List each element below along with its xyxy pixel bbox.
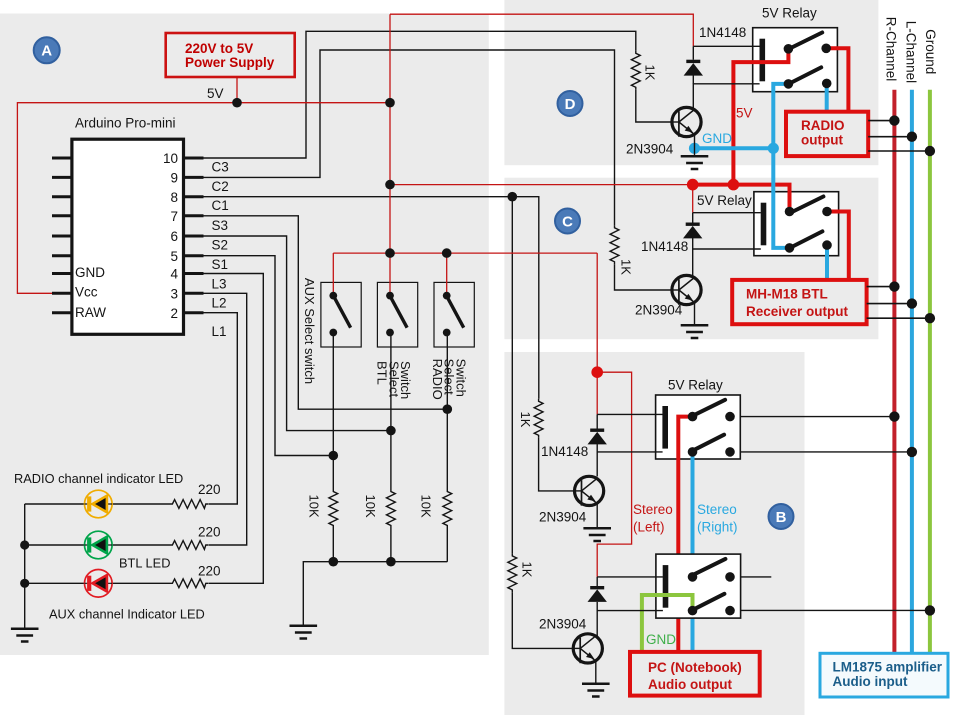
svg-text:C3: C3 [212, 160, 229, 175]
wire S3 pin7 to RADIO switch bottom [204, 216, 448, 409]
wire red top horizontal to relay D [390, 14, 693, 46]
transistor Q1 2N3904 (D) [672, 107, 701, 136]
resistor 1K relay C [610, 225, 619, 264]
wire RADIO output to R-Channel [868, 120, 894, 122]
Arduino pin number labels [163, 151, 179, 321]
relay K3 (B upper) box [656, 395, 741, 459]
wire transistor B1 emitter to ground [596, 505, 598, 528]
Arduino U1 box [72, 139, 184, 334]
svg-text:8: 8 [170, 190, 178, 205]
junction dot relay bus x center [385, 180, 395, 190]
svg-text:1K: 1K [518, 412, 533, 428]
svg-text:5V Relay: 5V Relay [697, 193, 752, 208]
wire red drop to AUX switch [332, 253, 334, 296]
relay K1 contacts [784, 44, 794, 54]
Arduino right pins [184, 158, 204, 313]
svg-text:5V Relay: 5V Relay [668, 378, 723, 393]
junction dot 10K bus 1 [329, 557, 339, 567]
dot R-Channel RADIO [889, 115, 899, 125]
wire red drop to BTL switch [389, 253, 391, 296]
svg-text:S3: S3 [212, 218, 229, 233]
wire relay C coil top [693, 212, 761, 214]
svg-text:Receiver output: Receiver output [746, 304, 849, 319]
svg-text:1N4148: 1N4148 [541, 444, 588, 459]
svg-text:Stereo: Stereo [633, 502, 673, 517]
svg-text:10: 10 [163, 151, 178, 166]
wire red drop to RADIO switch [446, 253, 448, 296]
svg-text:10K: 10K [418, 495, 433, 518]
junction dot 10K bus 2 [386, 557, 396, 567]
junction dot LED rail AUX [20, 579, 29, 588]
svg-text:2N3904: 2N3904 [539, 510, 587, 525]
wire relay B2 top throw stub [741, 576, 772, 578]
wire relay B1 coil top [597, 413, 662, 415]
svg-text:Stereo: Stereo [697, 502, 737, 517]
wire thick red relay C throw to MH-M18 output [827, 212, 849, 281]
svg-text:220: 220 [198, 525, 221, 540]
svg-text:5V: 5V [736, 106, 753, 121]
svg-text:MH-M18 BTL: MH-M18 BTL [746, 287, 828, 302]
svg-text:Audio output: Audio output [648, 677, 732, 692]
svg-text:(Left): (Left) [633, 520, 665, 535]
ground symbol transistor D [681, 156, 709, 169]
svg-text:220: 220 [198, 482, 221, 497]
wire green PC ground [642, 595, 693, 653]
LM1875 amplifier Audio input box [820, 653, 948, 697]
background gray panel region D [504, 0, 878, 165]
dot Ground MH-M18 [925, 313, 935, 323]
wire cyan relay C throw to MH-M18 output [825, 245, 829, 280]
svg-text:C2: C2 [212, 179, 229, 194]
wire cyan GND bus region D [695, 146, 774, 150]
svg-text:1N4148: 1N4148 [699, 25, 746, 40]
diode D2 1N4148 [692, 213, 694, 223]
switch SW1 contacts [329, 292, 337, 300]
background gray panel region C [504, 178, 878, 340]
relay K2 (C) box [754, 192, 839, 256]
wire MH-M18 to R-Channel [867, 286, 895, 288]
wire transistor C emitter to ground [694, 304, 696, 326]
wire relay B2 bottom throw to Ground line [741, 609, 930, 611]
wire cyan relay D bottom pole to gnd [773, 84, 788, 148]
junction dot switch bus x center [385, 248, 395, 258]
svg-text:L2: L2 [212, 296, 227, 311]
wire net labels C3..L1 [212, 160, 229, 340]
svg-text:6: 6 [170, 229, 178, 244]
dot Ground RADIO [925, 146, 935, 156]
10K resistor R4 [329, 489, 338, 528]
wire 1K to transistor D base [636, 90, 673, 122]
wire 10K ground bus [303, 562, 447, 625]
svg-text:5V Relay: 5V Relay [762, 6, 817, 21]
resistor 1K relay B1 [534, 399, 543, 438]
wire cyan gnd to relay C bottom pole [773, 148, 789, 248]
label Stereo (Right) [697, 502, 738, 535]
cyan junction dot gnd bus [768, 143, 779, 154]
dot L-Channel RADIO [907, 132, 917, 142]
wire cyan Stereo Right relay B1 pole to PC box [691, 452, 695, 653]
wire 1K to transistor B1 base [539, 438, 575, 491]
svg-text:L1: L1 [212, 324, 227, 339]
wire MH-M18 to L-Channel [867, 303, 912, 305]
wire relay C coil bottom / collector [693, 249, 761, 277]
svg-text:4: 4 [170, 267, 178, 282]
wire C1 pin8 to 1K B1 [204, 197, 539, 399]
svg-text:Switch: Switch [398, 361, 413, 399]
L-Channel line [910, 90, 914, 654]
transistor Q2 2N3904 (C) [672, 275, 701, 304]
svg-text:D: D [565, 96, 576, 113]
R-Channel line [892, 90, 896, 654]
resistor 220 R3 [170, 579, 208, 588]
junction dot switch bus RADIO [442, 248, 452, 258]
svg-text:Vcc: Vcc [75, 285, 98, 300]
dot L-Channel relay B1 [907, 447, 917, 457]
label Stereo (Left) [633, 502, 673, 535]
svg-text:L-Channel: L-Channel [904, 21, 919, 83]
svg-text:GND: GND [75, 265, 105, 280]
red junction dot 5V bus relay C [687, 179, 699, 191]
dot R-Channel relay B1 [889, 411, 899, 421]
wire 10K bottoms to ground bus [333, 528, 447, 562]
diode D3 1N4148 [596, 414, 598, 428]
svg-text:Arduino Pro-mini: Arduino Pro-mini [75, 116, 176, 131]
wire RADIO output to L-Channel [868, 136, 912, 138]
switch SW2 contacts [386, 292, 394, 300]
wire L1 pin2 to RADIO LED resistor [204, 313, 238, 504]
svg-text:Audio input: Audio input [833, 674, 908, 689]
wire thick red relay D throw to RADIO output [826, 48, 848, 112]
LED D6 green BTL [85, 531, 113, 559]
svg-text:(Right): (Right) [697, 520, 738, 535]
node B circle [769, 504, 794, 529]
wire relay B2 coil bottom / collector [597, 611, 663, 637]
wire relay B2 coil top [597, 576, 663, 578]
junction dot S1 [329, 451, 339, 461]
svg-text:1N4148: 1N4148 [641, 239, 688, 254]
junction dot LED rail BTL [20, 540, 29, 549]
wire red center vertical [389, 14, 391, 253]
wire relay B1 throw to R-Channel [740, 416, 894, 418]
transistor Q3 2N3904 (B1) [575, 476, 604, 505]
wire red 5V relay bus [390, 184, 693, 186]
node C circle [555, 209, 580, 234]
wire transistor D emitter to ground [694, 136, 696, 157]
dot L-Channel MH-M18 [907, 298, 917, 308]
wire thick red 5V to relay D pole [733, 49, 788, 186]
svg-text:5: 5 [170, 249, 178, 264]
red junction dot region B feed [591, 366, 603, 378]
svg-text:10K: 10K [363, 495, 378, 518]
diode D4 1N4148 [596, 577, 598, 586]
label BTL Select Switch [374, 361, 413, 399]
svg-text:1K: 1K [619, 259, 634, 275]
wire red switch bus [333, 252, 597, 254]
svg-text:10K: 10K [306, 495, 321, 518]
Arduino pin name labels GND Vcc RAW [75, 265, 106, 320]
relay K1 (D) box [753, 28, 838, 92]
junction dot 5V x center [385, 98, 395, 108]
wire red supply drop [236, 77, 238, 103]
svg-text:1K: 1K [643, 65, 658, 81]
svg-text:5V: 5V [207, 86, 224, 101]
wire transistor B2 emitter to ground [595, 662, 597, 684]
svg-text:Switch: Switch [454, 359, 469, 397]
ground symbol transistor B1 [583, 528, 611, 541]
svg-text:PC (Notebook): PC (Notebook) [648, 660, 742, 675]
switch SW1 AUX box [321, 282, 361, 347]
background gray panel region B [504, 352, 804, 715]
wire BTL switch bottom to 10K R5 [390, 333, 392, 490]
node A circle [34, 37, 60, 63]
svg-text:2: 2 [170, 306, 178, 321]
junction dot C1 branch [508, 192, 518, 202]
wire thick red Stereo Left relay B1 pole to PC box [678, 417, 692, 653]
wire red to relay C coil [692, 185, 694, 213]
label RADIO Select Switch [430, 359, 469, 400]
wire AUX switch bottom to 10K R4 [332, 333, 334, 490]
wire red bus down to region B [596, 253, 598, 372]
wire 1K to transistor B2 base [512, 592, 573, 648]
svg-text:R-Channel: R-Channel [883, 17, 898, 82]
svg-text:S1: S1 [212, 257, 229, 272]
svg-text:2N3904: 2N3904 [539, 617, 587, 632]
Ground line [928, 90, 932, 654]
wire C1 branch to 1K B2 [511, 197, 513, 554]
resistor 220 R2 [170, 541, 208, 550]
svg-text:RADIO channel indicator LED: RADIO channel indicator LED [14, 471, 183, 486]
wire diode D4 lead [596, 602, 598, 611]
relay K4 contacts [688, 572, 698, 582]
svg-text:L3: L3 [212, 277, 227, 292]
relay K4 (B lower) box [656, 554, 741, 618]
ground symbol for 10K bus [290, 626, 318, 639]
wire relay D coil top [693, 45, 759, 47]
background left gray panel [0, 14, 489, 656]
svg-text:A: A [41, 43, 52, 60]
resistor 1K relay B2 [508, 553, 517, 592]
red junction dot 5V bus relay D [728, 179, 740, 191]
wire L2 pin3 to BTL LED resistor [204, 293, 247, 545]
wire S1 pin5 to AUX switch bottom [204, 256, 334, 456]
svg-text:220V to 5V: 220V to 5V [185, 41, 253, 56]
svg-text:3: 3 [170, 286, 178, 301]
svg-text:RADIO: RADIO [801, 118, 845, 133]
svg-text:output: output [801, 133, 843, 148]
wire red relay B1 coil feed [597, 372, 631, 577]
wire cyan relay D throw to RADIO output [825, 83, 829, 112]
power supply box PS1 [166, 33, 295, 77]
wire 5V red from supply to Vcc [17, 103, 390, 294]
PC Notebook Audio output box [630, 652, 760, 696]
svg-text:B: B [776, 509, 787, 526]
wire relay B1 throw to L-Channel [740, 451, 912, 453]
wire relay D coil bottom / collector [693, 84, 759, 109]
junction dot S3 [443, 404, 453, 414]
node D circle [558, 91, 583, 116]
svg-text:7: 7 [170, 209, 178, 224]
MH-M18 BTL Receiver output box [732, 280, 866, 324]
ground symbol transistor B2 [582, 684, 610, 697]
wire RADIO switch bottom to 10K R6 [446, 333, 448, 490]
diode D1 1N4148 [692, 46, 694, 59]
svg-text:Power Supply: Power Supply [185, 55, 275, 70]
svg-text:AUX Select switch: AUX Select switch [302, 278, 317, 384]
10K resistor R6 [443, 489, 452, 528]
wire L3 pin4 to AUX LED resistor [204, 274, 264, 584]
dot Ground relay B2 [925, 605, 935, 615]
wire RADIO output to Ground [868, 150, 930, 152]
wire relay B1 coil bottom / collector [597, 452, 662, 477]
wire RADIO LED row [25, 503, 170, 505]
svg-text:C: C [562, 213, 573, 230]
wire C3 pin10 to 1K D [204, 31, 636, 158]
cyan junction dot transistor D emitter [689, 143, 700, 154]
wire 1K to transistor C base [615, 264, 673, 290]
wire C2 pin9 to 1K C [204, 50, 615, 225]
LED D7 red AUX [85, 570, 113, 598]
svg-text:GND: GND [646, 632, 676, 647]
ground symbol transistor C [681, 325, 709, 338]
svg-text:2N3904: 2N3904 [635, 303, 683, 318]
svg-text:RAW: RAW [75, 305, 106, 320]
LED D5 yellow RADIO [85, 490, 113, 518]
resistor 1K relay D [631, 51, 640, 90]
wire S2 pin6 to BTL switch bottom [204, 236, 391, 431]
10K resistor R5 [387, 489, 396, 528]
svg-text:S2: S2 [212, 238, 229, 253]
resistor 220 R1 [170, 500, 208, 509]
wire thick red 5V bus segment to relay C pole [693, 185, 790, 212]
svg-text:220: 220 [198, 564, 221, 579]
switch SW3 RADIO box [434, 282, 474, 347]
svg-text:AUX channel Indicator LED: AUX channel Indicator LED [49, 607, 205, 622]
ground symbol LED rail [11, 629, 39, 642]
svg-text:9: 9 [170, 171, 178, 186]
svg-text:1K: 1K [520, 562, 535, 578]
svg-text:LM1875 amplifier: LM1875 amplifier [833, 660, 943, 675]
junction dot 5V supply [232, 98, 242, 108]
switch SW2 BTL box [377, 282, 417, 347]
dot R-Channel MH-M18 [889, 281, 899, 291]
wire AUX LED row [25, 582, 170, 584]
svg-text:BTL LED: BTL LED [119, 556, 170, 571]
svg-text:C1: C1 [212, 198, 229, 213]
switch SW3 contacts [443, 292, 451, 300]
transistor Q4 2N3904 (B2) [573, 634, 602, 663]
RADIO output box [786, 112, 868, 156]
relay K3 contacts [688, 412, 698, 422]
wire BTL LED row [25, 544, 170, 546]
wire LED common cathode rail [24, 504, 26, 628]
svg-text:2N3904: 2N3904 [626, 142, 674, 157]
relay K2 contacts [785, 207, 795, 217]
wire MH-M18 to Ground [867, 317, 930, 319]
Arduino left pins [52, 158, 72, 313]
junction dot S2 [386, 426, 396, 436]
svg-text:GND: GND [702, 131, 732, 146]
svg-text:Ground: Ground [923, 29, 938, 74]
